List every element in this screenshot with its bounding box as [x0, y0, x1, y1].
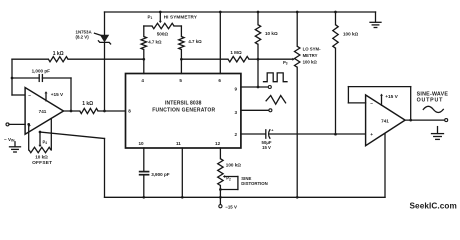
svg-text:9: 9	[235, 87, 238, 92]
wire pin 3 triangle output	[241, 109, 269, 111]
wire pin 10	[143, 148, 145, 171]
wire zener branch	[104, 12, 106, 35]
svg-text:1,000 pF: 1,000 pF	[32, 68, 51, 73]
svg-text:P3: P3	[283, 60, 288, 66]
svg-text:12: 12	[215, 141, 221, 146]
svg-text:4.7 kΩ: 4.7 kΩ	[188, 39, 202, 44]
node rail-P3	[296, 11, 299, 14]
triangle wave symbol	[266, 96, 286, 105]
wire U1 output	[64, 110, 80, 112]
capacitor 50uF	[265, 130, 267, 138]
svg-text:1 kΩ: 1 kΩ	[53, 51, 64, 57]
wire U3 output	[405, 119, 445, 121]
svg-text:6: 6	[218, 78, 221, 83]
svg-text:+: +	[370, 133, 373, 138]
wire P4 wiper to -15V rail	[40, 132, 105, 139]
capacitor 3900 pF	[139, 171, 150, 173]
svg-text:−: −	[28, 94, 31, 99]
ground input	[14, 142, 16, 147]
svg-text:100 kΩ: 100 kΩ	[343, 31, 358, 36]
svg-text:INTERSIL 8038: INTERSIL 8038	[165, 101, 202, 107]
wire P3 wiper	[258, 58, 292, 60]
svg-text:15 V: 15 V	[262, 145, 271, 150]
svg-text:11: 11	[176, 141, 181, 146]
svg-text:P2: P2	[226, 176, 231, 182]
svg-text:741: 741	[39, 109, 47, 114]
svg-text:2: 2	[235, 132, 238, 137]
svg-text:+: +	[271, 128, 274, 132]
node rail-pin6	[219, 11, 222, 14]
wire pin 2 sine output	[241, 133, 266, 135]
resistor 10k	[257, 12, 259, 25]
ground top right rail	[375, 12, 377, 22]
op-amp U1 741	[25, 88, 63, 135]
svg-text:100 kΩ: 100 kΩ	[303, 59, 318, 64]
svg-text:3: 3	[235, 110, 238, 115]
input terminal -VIN	[6, 123, 9, 126]
svg-text:5: 5	[179, 78, 182, 83]
resistor 100k right	[335, 12, 337, 25]
svg-text:10 kΩ: 10 kΩ	[265, 31, 278, 36]
IC U2 Intersil 8038	[126, 74, 241, 149]
svg-text:METRY: METRY	[303, 53, 318, 58]
potentiometer P2 sine distortion 100k	[219, 148, 221, 159]
svg-text:SINE-WAVE: SINE-WAVE	[417, 91, 449, 97]
svg-text:LO SYM-: LO SYM-	[303, 47, 321, 52]
node rail-100k	[334, 11, 337, 14]
svg-text:500Ω: 500Ω	[157, 31, 169, 36]
capacitor 1000 pF	[12, 77, 39, 79]
svg-text:8: 8	[128, 109, 131, 114]
svg-text:10: 10	[138, 141, 144, 146]
wire bottom -15V rail	[105, 196, 386, 198]
wire U3 feedback loop	[348, 102, 365, 104]
node pin4 net	[142, 58, 145, 61]
wire top supply rail	[105, 11, 376, 13]
node rail-10k	[257, 11, 260, 14]
svg-text:− VIN: − VIN	[4, 137, 15, 143]
resistor 4.7k left	[143, 26, 145, 37]
supply +15V U3	[381, 95, 383, 105]
svg-text:P4: P4	[43, 139, 48, 145]
svg-text:+15 V: +15 V	[51, 92, 64, 97]
svg-text:−15 V: −15 V	[225, 204, 237, 209]
zener diode D1 1N753A	[100, 35, 109, 43]
svg-text:OUTPUT: OUTPUT	[417, 97, 444, 103]
resistor 1k output	[80, 108, 98, 113]
wire pin 6 to rail	[219, 12, 221, 74]
square wave symbol	[264, 73, 288, 82]
svg-text:1 kΩ: 1 kΩ	[82, 101, 93, 107]
op-amp U3 741	[366, 95, 406, 146]
resistor 1M	[181, 58, 228, 60]
svg-text:4: 4	[141, 78, 144, 83]
svg-text:100 kΩ: 100 kΩ	[226, 162, 241, 167]
ground output	[437, 127, 439, 134]
svg-text:OFFSET: OFFSET	[32, 160, 52, 166]
wire pin 9 square output	[241, 86, 268, 88]
svg-text:FUNCTION GENERATOR: FUNCTION GENERATOR	[152, 108, 215, 114]
supply +15V U1	[45, 93, 47, 101]
svg-text:741: 741	[381, 118, 389, 123]
node pin5 net	[180, 58, 183, 61]
svg-text:SeekIC.com: SeekIC.com	[410, 202, 457, 211]
sine wave symbol	[423, 106, 443, 112]
potentiometer P4 offset 10k	[29, 147, 51, 152]
resistor 1k feedback	[12, 58, 48, 60]
svg-text:4.7 kΩ: 4.7 kΩ	[148, 40, 162, 45]
potentiometer P3 lo symmetry 100k	[296, 12, 298, 46]
svg-text:(8.2 V): (8.2 V)	[76, 35, 90, 40]
svg-text:10 kΩ: 10 kΩ	[35, 155, 48, 160]
svg-text:1 MΩ: 1 MΩ	[230, 50, 242, 55]
wire pin 11	[181, 148, 183, 197]
svg-text:DISTORTION: DISTORTION	[241, 181, 267, 186]
svg-text:+15 V: +15 V	[385, 94, 398, 100]
node rail-P1 wiper	[159, 11, 162, 14]
resistor 4.7k right	[180, 26, 182, 37]
wire inverting input branch	[11, 59, 13, 95]
potentiometer P1 500 ohm	[144, 25, 152, 27]
svg-text:−: −	[370, 102, 373, 107]
terminal -15V	[219, 197, 221, 204]
svg-text:P1: P1	[148, 14, 153, 20]
svg-text:HI SYMMETRY: HI SYMMETRY	[164, 15, 197, 20]
wire V- supply U3	[384, 133, 386, 197]
svg-text:3,900 pF: 3,900 pF	[151, 172, 170, 177]
